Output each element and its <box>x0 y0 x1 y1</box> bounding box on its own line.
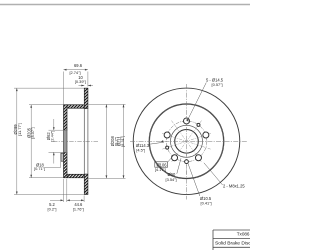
small boss / O18 feature on flange back <box>61 153 64 161</box>
center bore O62 <box>175 130 199 154</box>
svg-text:[0.39"]: [0.39"] <box>75 79 86 84</box>
mounting flange plate (vertical bar with bore gap) <box>64 105 68 178</box>
O90 circle <box>171 125 203 157</box>
dim O299 <box>16 88 18 194</box>
svg-text:[4.17"]: [4.17"] <box>155 167 166 172</box>
svg-text:[0.71"]: [0.71"] <box>34 166 45 171</box>
svg-text:69.6: 69.6 <box>74 63 83 68</box>
hat bottom wall bar <box>67 174 84 177</box>
border frame top line <box>0 4 250 6</box>
svg-text:[0.57"]: [0.57"] <box>212 82 223 87</box>
friction band inner circle O211 <box>149 104 224 179</box>
O18 leader <box>45 166 61 168</box>
svg-text:[8.31"]: [8.31"] <box>120 136 125 147</box>
dim O208 / O211 right side <box>105 104 107 178</box>
svg-text:Solid Brake Disc: Solid Brake Disc <box>215 241 250 247</box>
dim O62 bore <box>53 119 55 130</box>
outer circle O299 <box>133 88 240 195</box>
section dimension texts <box>13 63 125 211</box>
hat circle O208 <box>150 104 224 178</box>
bolt holes 5 x O14.5 <box>164 118 209 164</box>
front view labels <box>136 78 245 206</box>
centerlines <box>130 84 248 200</box>
front view leaders <box>150 83 222 197</box>
arrowheads <box>16 69 125 201</box>
svg-text:2 - M8x1.25: 2 - M8x1.25 <box>223 184 245 189</box>
centerline section axis <box>53 140 98 142</box>
svg-text:[2.44"]: [2.44"] <box>50 131 55 142</box>
O10.5 hole <box>185 160 189 164</box>
bottom dims 5.2 / 44.6 <box>63 179 65 202</box>
disc friction ring section (vertical bar) <box>84 88 88 194</box>
dim 10 disc thickness <box>79 85 85 87</box>
svg-text:[8.07"]: [8.07"] <box>30 127 35 138</box>
svg-text:[4.5"]: [4.5"] <box>136 148 145 153</box>
dim 69.6 total height <box>64 69 88 71</box>
svg-text:[3.54"]: [3.54"] <box>166 177 177 182</box>
svg-text:[0.41"]: [0.41"] <box>201 201 212 206</box>
radial centerlines through bolt holes <box>162 121 211 174</box>
PCD circle O114.3 dash-dot <box>166 121 207 162</box>
svg-text:[1.76"]: [1.76"] <box>73 207 84 212</box>
dim O205 <box>30 105 32 178</box>
svg-text:[0.2"]: [0.2"] <box>48 207 57 212</box>
svg-text:Tx086: Tx086 <box>237 232 250 237</box>
hat top wall bar <box>67 105 84 108</box>
M8 service holes <box>197 123 200 126</box>
svg-text:[11.77"]: [11.77"] <box>17 123 22 136</box>
